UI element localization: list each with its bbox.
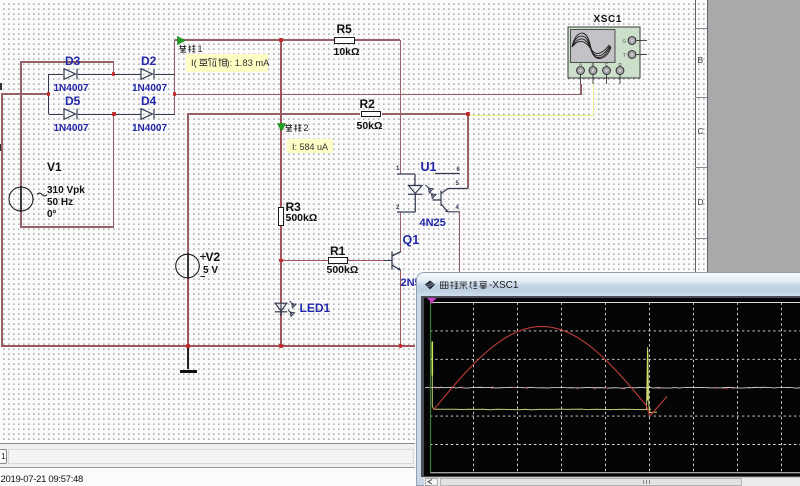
- wire D4 cathode lead: [155, 114, 175, 115]
- wire bridge anode rail: [48, 74, 49, 114]
- probe 1 value text I(RMS): 1.83 mA: [191, 58, 197, 69]
- junction node Q1 emitter bus: [399, 344, 402, 347]
- diode D5: [63, 107, 81, 121]
- diode D2: [140, 67, 158, 81]
- wire U1 pin2 to Q1 collector: [400, 212, 401, 252]
- label value V2 5 V: [203, 265, 218, 276]
- wire R3 to LED wire: [280, 226, 281, 304]
- canvas bottom edge: [0, 443, 415, 444]
- label value D2 1N4007: [132, 83, 167, 94]
- wire D5 anode lead: [49, 114, 64, 115]
- label value V1 50 Hz: [47, 197, 73, 208]
- wire ground stem: [187, 346, 188, 369]
- transistor Q1: [388, 247, 408, 275]
- wire R1 left wire: [281, 260, 329, 261]
- sheet tab (partial): [0, 449, 7, 465]
- label value U1 4N25: [420, 217, 446, 229]
- resistor R1: [328, 257, 349, 264]
- sheet border tick y=27.5: [695, 28, 707, 29]
- wire D2 cathode lead: [155, 74, 175, 75]
- oscilloscope window frame: [416, 272, 800, 486]
- LED LED1 symbol: [272, 296, 302, 322]
- label label Q1: [403, 233, 420, 247]
- status bar divider: [0, 467, 415, 468]
- wire LED to bus wire: [280, 311, 281, 346]
- wire bridge+ long wire to scope: [175, 94, 582, 95]
- wire bridge left output: [1, 93, 48, 94]
- diode D3: [63, 67, 81, 81]
- resistor R3: [278, 207, 285, 226]
- label label R3: [286, 200, 301, 214]
- scope black display: [424, 298, 800, 476]
- wire V1 top lead: [20, 62, 21, 187]
- label value V1 310 Vpk: [47, 185, 85, 196]
- probe 2 name 探针2: [285, 124, 294, 133]
- probe 2 value text: [292, 142, 328, 152]
- label label R2: [360, 97, 375, 111]
- off-sheet gray area: [708, 0, 800, 272]
- svg-text:B: B: [592, 62, 595, 67]
- window title bar: [417, 273, 800, 297]
- label sheet row letter B: [698, 55, 704, 65]
- source V1 through line: [20, 186, 21, 212]
- label label D4: [141, 94, 156, 108]
- diode D4: [140, 107, 158, 121]
- window scrollbar: [424, 477, 800, 486]
- wire D5-D4 link: [78, 114, 141, 115]
- label value Q1 2N5: [401, 277, 421, 289]
- label label XSC1: [594, 14, 623, 25]
- label value D3 1N4007: [54, 83, 89, 94]
- wire R3 column top: [280, 40, 281, 208]
- junction node R5/R3 branch: [279, 38, 282, 41]
- wire V1 top horizontal: [20, 61, 114, 62]
- resistor R5: [334, 37, 355, 44]
- label value V1 0deg: [47, 209, 57, 220]
- label value R5 10k: [334, 46, 360, 58]
- junction node bridge bottom: [112, 112, 115, 115]
- label sheet row letter C: [698, 126, 704, 136]
- label sheet row letter D: [698, 197, 704, 207]
- label value D4 1N4007: [132, 123, 167, 134]
- sheet border tick y=96.5: [695, 97, 707, 98]
- wire U1 pin4 down wire: [459, 212, 460, 272]
- svg-text:A: A: [579, 62, 582, 67]
- label label R1: [330, 244, 345, 258]
- wire scope channel B yellow horizontal: [468, 115, 594, 117]
- left edge partial mark 1: [0, 83, 2, 90]
- label value R2 50k: [357, 120, 383, 132]
- label value R1 500k: [327, 264, 359, 276]
- optocoupler U1 (4N25): [395, 168, 471, 218]
- source V2 symbol: [174, 252, 210, 282]
- junction node V2 bus: [186, 344, 189, 347]
- wire V1 bottom horizontal: [20, 226, 114, 227]
- scope inset border: [421, 296, 800, 477]
- oscilloscope instrument XSC1 icon: [567, 26, 649, 88]
- wire V1 bottom lead: [20, 211, 21, 227]
- label label D3: [65, 54, 80, 68]
- probe 2 value box: [287, 139, 334, 153]
- wire V1 top to bridge down: [113, 62, 114, 74]
- bottom tab bar: [0, 444, 415, 467]
- label label LED1: [300, 301, 331, 315]
- junction node LED bus: [279, 344, 282, 347]
- label label R5: [337, 22, 352, 36]
- wire R5 right wire: [354, 39, 400, 40]
- svg-text:G: G: [623, 39, 627, 44]
- wire scope channel B yellow vertical: [593, 84, 595, 115]
- label label D2: [141, 54, 156, 68]
- wire Q1 emitter to bus: [400, 270, 401, 346]
- label label D5: [65, 94, 80, 108]
- probe 1 arrow: [177, 36, 187, 46]
- label label U1: [421, 160, 437, 174]
- junction node anode rail tap: [47, 92, 50, 95]
- source V2 through line: [187, 253, 188, 279]
- wire Q1 base lead: [384, 260, 392, 261]
- wire probe1 R5 wire: [175, 39, 335, 40]
- resistor R2: [361, 111, 382, 118]
- svg-text:T: T: [623, 53, 626, 58]
- status bar date text: [1, 474, 84, 485]
- ground: [180, 370, 198, 373]
- scope grid and traces: [424, 298, 800, 476]
- U1 pin 6 stub: [434, 170, 461, 178]
- wire R1 right wire: [347, 260, 384, 261]
- source V1 symbol: [7, 185, 49, 213]
- wire bridge row2 feed: [113, 114, 114, 227]
- wire D3-D2 link: [78, 74, 141, 75]
- wire R2 right wire: [382, 113, 469, 114]
- wire R2 left wire: [187, 113, 360, 114]
- junction node bridge top: [112, 72, 115, 75]
- wire ground bus: [1, 345, 415, 346]
- window icon: [424, 280, 436, 290]
- junction node R1/R3/LED: [279, 259, 282, 262]
- left edge partial mark 2: [0, 144, 2, 151]
- wire left rail down: [1, 93, 2, 346]
- sheet border tick y=166.5: [695, 167, 707, 168]
- probe 1 name 探针1: [179, 45, 188, 54]
- sheet border line outer: [707, 0, 708, 272]
- wire bridge cathode rail: [174, 40, 175, 114]
- label value R3 500k: [286, 212, 318, 224]
- probe 2 arrow: [277, 123, 287, 133]
- junction node R2 right: [466, 112, 469, 115]
- probe 1 value box: [186, 54, 268, 72]
- label label V1: [47, 160, 62, 174]
- U1 pin numbers: [396, 166, 399, 172]
- wire V2 bottom wire: [187, 278, 188, 347]
- wire scope A drop: [580, 84, 581, 94]
- wire D3 anode lead: [49, 74, 64, 75]
- label value D5 1N4007: [54, 123, 89, 134]
- junction node cathode rail tap: [173, 92, 176, 95]
- window title text 四踪示波器-XSC1: [440, 281, 450, 291]
- wire V2 top wire: [187, 114, 188, 255]
- sheet border line inner: [695, 0, 696, 272]
- sheet border tick y=237.5: [695, 238, 707, 239]
- wire R2 to U1 pin5 wire: [467, 114, 468, 188]
- wire R5 to U1 pin1: [400, 40, 401, 174]
- label label V2: [206, 250, 221, 264]
